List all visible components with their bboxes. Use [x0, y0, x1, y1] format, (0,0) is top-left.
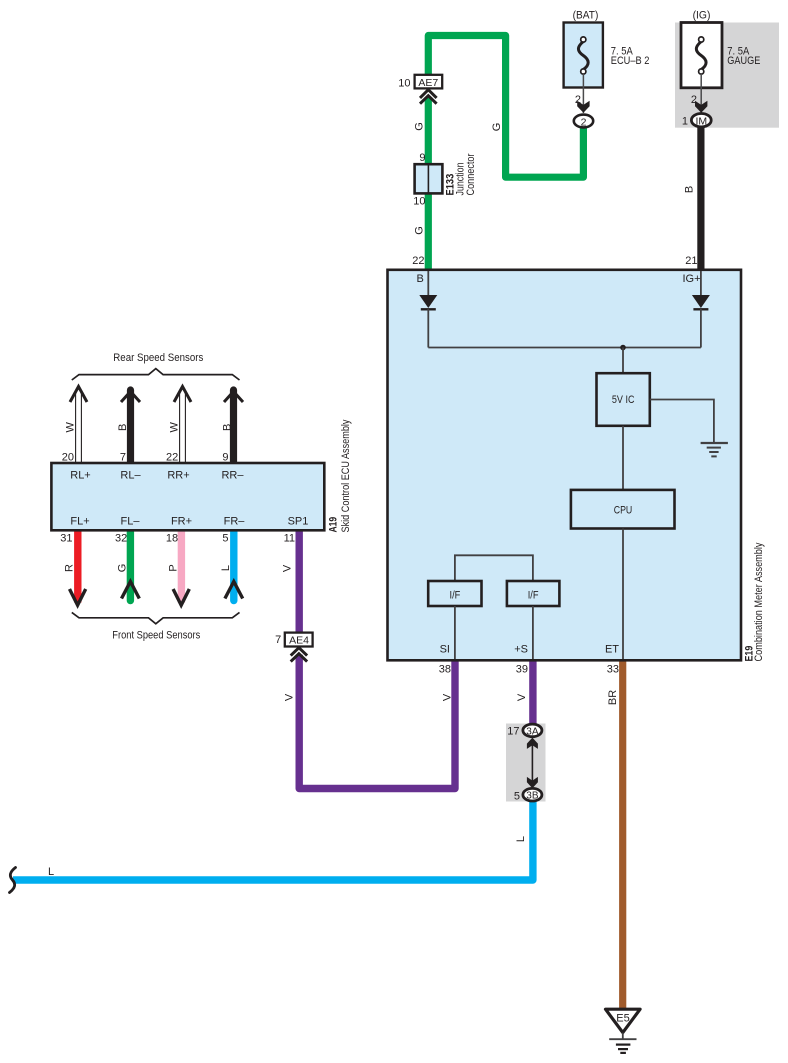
svg-text:3B: 3B	[526, 791, 539, 802]
wire pin IG+ to diode	[700, 271, 702, 296]
connector AE4	[285, 633, 313, 647]
svg-text:5V IC: 5V IC	[612, 394, 635, 406]
CPU	[571, 490, 675, 529]
wire B sensor RR-	[224, 390, 243, 464]
gray relay block panel (IG)	[675, 23, 779, 128]
svg-text:FL+: FL+	[70, 515, 89, 527]
wire fuse BAT to oval 2	[582, 74, 584, 113]
svg-text:Front Speed Sensors: Front Speed Sensors	[112, 630, 200, 642]
connector AE7	[415, 75, 443, 89]
wire CPU to pin ET	[622, 529, 624, 660]
arrow 3A to 3B	[531, 744, 533, 782]
interface I/F 1	[428, 581, 481, 606]
skid control ECU box A19	[51, 463, 324, 530]
wire B (black) from IM oval to pin 21	[697, 126, 704, 269]
svg-text:I/F: I/F	[450, 590, 461, 602]
svg-text:Skid Control ECU Assembly: Skid Control ECU Assembly	[340, 419, 352, 532]
gray panel 3A/3B connector	[506, 724, 546, 802]
svg-text:W: W	[64, 421, 76, 432]
svg-text:10: 10	[413, 196, 425, 208]
svg-text:31: 31	[60, 533, 72, 545]
wire L sensor FR-	[225, 529, 243, 601]
internal ground	[701, 443, 728, 456]
svg-text:38: 38	[439, 664, 451, 676]
svg-text:ET: ET	[605, 644, 619, 656]
svg-text:10: 10	[398, 78, 410, 90]
svg-text:FR–: FR–	[224, 515, 246, 527]
ground E5	[606, 1009, 641, 1053]
svg-text:39: 39	[516, 664, 528, 676]
svg-text:7: 7	[120, 451, 126, 463]
svg-text:P: P	[167, 564, 179, 571]
junction connector E133	[415, 164, 443, 193]
svg-text:11: 11	[284, 533, 295, 545]
svg-text:(BAT): (BAT)	[573, 10, 599, 22]
svg-text:L: L	[48, 866, 54, 878]
continuation squiggle	[10, 868, 16, 893]
svg-text:G: G	[491, 123, 503, 132]
wire V (purple) SP1 pin 11 to AE4	[296, 531, 303, 632]
wire W sensor RL+	[70, 387, 87, 464]
svg-text:B: B	[117, 424, 129, 431]
wire G (green) below AE7	[425, 97, 432, 268]
wire B sensor RL-	[121, 390, 140, 464]
svg-text:Combination Meter Assembly: Combination Meter Assembly	[753, 542, 765, 661]
svg-text:V: V	[441, 693, 453, 701]
wire W sensor RR+	[174, 387, 191, 464]
svg-text:9: 9	[222, 451, 228, 463]
svg-text:AE7: AE7	[418, 77, 438, 89]
combination meter assembly box E19	[388, 270, 742, 661]
svg-text:G: G	[116, 564, 128, 573]
svg-text:22: 22	[412, 255, 424, 267]
wire bridge I/F tops	[455, 555, 533, 581]
svg-text:ECU–B 2: ECU–B 2	[611, 55, 650, 67]
interface I/F 2	[507, 581, 560, 606]
connector oval 3B	[523, 788, 542, 801]
wire BR (brown) pin 33 ET to ground E5	[619, 662, 626, 1010]
wire G (green) from oval 2 to pin 22 via AE7 and E133	[428, 36, 583, 178]
svg-text:L: L	[515, 836, 527, 842]
brace rear speed sensors	[72, 369, 240, 380]
wire node to 5V IC	[622, 348, 624, 375]
connector oval IM	[691, 114, 711, 127]
svg-text:21: 21	[685, 255, 697, 267]
connector oval 3A	[523, 724, 542, 737]
svg-text:GAUGE: GAUGE	[727, 55, 760, 67]
svg-text:7: 7	[275, 634, 281, 646]
svg-text:BR: BR	[607, 690, 619, 705]
svg-text:V: V	[516, 693, 528, 701]
svg-text:22: 22	[166, 451, 178, 463]
svg-text:AE4: AE4	[289, 635, 309, 647]
svg-text:B: B	[684, 186, 696, 193]
wire I/F1 to pin SI	[454, 606, 456, 659]
wire G sensor FL-	[122, 529, 140, 601]
svg-text:33: 33	[607, 664, 619, 676]
node junction dot	[620, 345, 626, 351]
svg-text:32: 32	[115, 533, 127, 545]
svg-text:2: 2	[581, 116, 587, 128]
svg-text:(IG): (IG)	[693, 10, 711, 22]
arrow into oval IM	[695, 101, 707, 113]
brace front speed sensors	[72, 612, 240, 623]
svg-text:9: 9	[419, 152, 425, 164]
svg-text:17: 17	[507, 726, 519, 738]
svg-text:CPU: CPU	[614, 505, 633, 517]
svg-text:Connector: Connector	[465, 153, 477, 195]
svg-text:B: B	[222, 424, 234, 431]
diode D1	[419, 295, 437, 308]
wire diode D2 down	[700, 309, 702, 348]
wire P sensor FR+	[173, 529, 189, 605]
svg-text:IG+: IG+	[682, 273, 700, 285]
wire fuse IG to oval IM	[700, 74, 702, 113]
svg-text:1: 1	[682, 116, 688, 128]
svg-text:RL+: RL+	[70, 470, 91, 482]
wire pin B to diode	[427, 271, 429, 296]
svg-text:RR+: RR+	[167, 470, 189, 482]
svg-text:E5: E5	[616, 1013, 629, 1025]
svg-text:SP1: SP1	[288, 515, 309, 527]
wire I/F2 to pin +S	[532, 606, 534, 659]
fuse GAUGE (IG)	[681, 10, 760, 88]
svg-text:I/F: I/F	[528, 590, 539, 602]
svg-text:A19: A19	[328, 517, 340, 533]
svg-text:5: 5	[514, 791, 520, 803]
connector AE4 chevrons	[291, 648, 307, 662]
svg-text:RL–: RL–	[120, 470, 141, 482]
wire diode D1 down	[427, 309, 429, 348]
svg-text:3A: 3A	[526, 726, 539, 737]
svg-text:L: L	[220, 565, 232, 571]
svg-text:+S: +S	[514, 644, 528, 656]
svg-text:V: V	[283, 693, 295, 701]
svg-text:RR–: RR–	[221, 470, 244, 482]
diode D2	[692, 295, 710, 308]
svg-text:5: 5	[222, 533, 228, 545]
svg-text:R: R	[64, 564, 76, 572]
connector AE7 chevrons	[420, 90, 437, 104]
svg-text:W: W	[168, 421, 180, 432]
wire R sensor FL+	[70, 529, 86, 605]
wire bus horizontal	[428, 347, 701, 349]
wire L (cyan) from 3B to left edge continuation	[13, 800, 533, 880]
wire V (purple) AE4 to pin 38 SI	[299, 655, 455, 789]
svg-text:B: B	[416, 273, 423, 285]
wire 5V IC to internal ground	[650, 400, 714, 443]
wire V (purple) pin 39 +S to connector 3A	[529, 662, 536, 725]
svg-text:IM: IM	[695, 115, 707, 127]
connector oval 2	[574, 115, 593, 128]
svg-text:Rear Speed Sensors: Rear Speed Sensors	[113, 352, 203, 364]
fuse ECU-B 2 (BAT)	[564, 10, 650, 88]
svg-text:18: 18	[166, 533, 178, 545]
svg-text:SI: SI	[440, 644, 450, 656]
svg-text:FL–: FL–	[121, 515, 141, 527]
svg-text:FR+: FR+	[171, 515, 192, 527]
svg-text:20: 20	[62, 451, 74, 463]
svg-text:V: V	[281, 564, 293, 572]
arrow into oval 2	[577, 101, 589, 113]
wire 5V IC to CPU	[622, 426, 624, 490]
svg-text:G: G	[414, 122, 426, 131]
svg-text:G: G	[414, 226, 426, 235]
regulator 5V IC	[597, 373, 650, 426]
